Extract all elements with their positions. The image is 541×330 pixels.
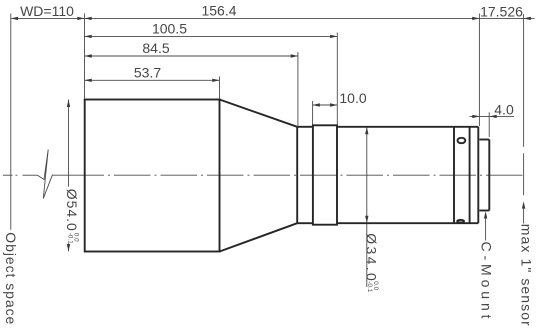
sensor plane mark [523,153,525,195]
leader C-Mount [484,211,487,240]
label Object space [3,232,19,324]
svg-text:84.5: 84.5 [142,40,169,56]
neck bottom edge [297,222,313,224]
svg-text:17.526: 17.526 [480,4,523,20]
barrel rear joint [453,127,455,223]
svg-text:156.4: 156.4 [201,2,236,18]
dimension 53.7 line [85,79,220,82]
label max 1" sensor [519,224,535,326]
lens front barrel outline [85,100,220,252]
cone top edge [220,100,298,127]
svg-text:max 1" sensor: max 1" sensor [519,224,535,326]
extension line thread end [488,112,490,137]
svg-text:4.0: 4.0 [494,101,514,117]
barrel top edge [337,126,478,128]
thread top edge [479,139,489,141]
cone end vertical [296,127,298,223]
svg-text:53.7: 53.7 [134,64,161,80]
thread rear face [488,140,490,211]
dimension 17.526 line [479,17,534,20]
dimension 156.4 line [85,17,480,20]
extension line taper start [219,77,221,99]
dimension 10.0 line [313,103,338,106]
centerline left segment [3,174,38,176]
barrel bottom edge [337,222,478,224]
svg-text:C-Mount: C-Mount [479,242,495,319]
svg-text:-0.1: -0.1 [366,281,373,292]
dimension dia34 label [364,233,380,292]
extension line ring left [312,101,314,125]
dimension WD=110 line [11,17,85,20]
svg-text:Object space: Object space [3,232,19,324]
extension line object plane [10,14,12,230]
svg-text:100.5: 100.5 [152,20,187,36]
svg-text:Ø54.0: Ø54.0 [64,189,80,231]
dimension 100.5 line [85,35,338,38]
neck top edge [297,126,313,128]
clamp ring joint [469,127,471,223]
dimension dia54 line [67,100,70,252]
set screw bottom [457,220,464,223]
leader max sensor [522,201,525,223]
focus ring outline [313,125,337,224]
extension line sensor plane [523,14,525,147]
dimension 84.5 line [85,54,298,57]
dimension dia54 label [64,189,80,244]
extension line lens front face [84,14,86,99]
thread bottom edge [479,210,489,212]
extension line ring right [336,33,338,125]
set screw top [458,138,466,143]
svg-text:Ø34.0: Ø34.0 [364,233,380,281]
flange end face [477,127,479,223]
centerline main segment [53,174,71,176]
extension line flange face [478,14,480,127]
svg-text:WD=110: WD=110 [20,3,74,19]
svg-text:10.0: 10.0 [339,90,366,106]
cone bottom edge [220,223,298,251]
dimension 4.0 line [470,115,515,118]
label C-Mount [479,242,495,319]
dimension dia34 line [365,127,368,287]
break symbol [38,150,53,199]
extension line cone end [297,52,299,126]
svg-text:-0.1: -0.1 [67,233,74,244]
